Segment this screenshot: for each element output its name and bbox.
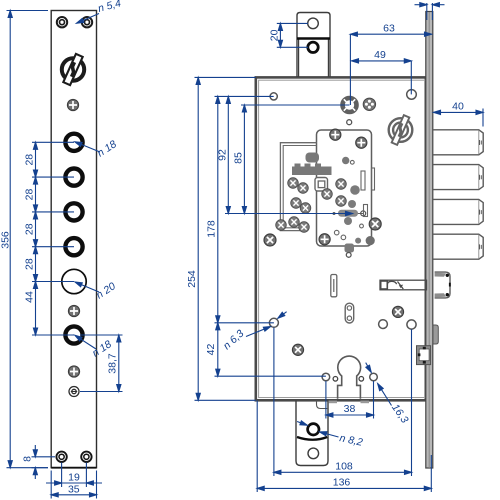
bottom tab divider [297, 437, 327, 440]
dim 19 [46, 463, 102, 488]
bottom tab hole lower [308, 448, 319, 459]
bottom tab hole upper (thick) [308, 424, 319, 435]
top tab hole lower (thick) [308, 42, 318, 52]
top tab [297, 13, 330, 78]
dim 42 [216, 323, 220, 376]
n6.3 hole left [269, 318, 278, 327]
svg-text:63: 63 [383, 23, 395, 35]
square element [315, 178, 328, 192]
leader n8,2 [297, 421, 338, 437]
top tab hole upper [308, 18, 319, 29]
stub below keyhole right [361, 401, 370, 404]
svg-text:178: 178 [206, 220, 218, 238]
phillips right area [392, 306, 403, 317]
svg-text:42: 42 [205, 344, 217, 356]
svg-text:35: 35 [68, 484, 80, 496]
stadium slot [345, 303, 354, 323]
hole with ext line [407, 320, 416, 329]
svg-text:92: 92 [216, 149, 228, 161]
dim 178 [216, 96, 220, 322]
top hole right n5.4 [82, 17, 92, 27]
ext top holes line [215, 95, 274, 97]
ext line mech center [225, 211, 353, 215]
hole n18 #3 [65, 203, 82, 220]
mechanism plate [317, 130, 372, 246]
faceplate strip outline [51, 11, 96, 468]
svg-text:8: 8 [22, 456, 34, 462]
svg-text:136: 136 [333, 477, 351, 489]
phillips screw mid [68, 305, 79, 316]
svg-text:38,7: 38,7 [107, 353, 119, 374]
plain hole [379, 320, 388, 329]
dim 20 (tab holes) [277, 23, 308, 47]
svg-text:40: 40 [452, 101, 464, 113]
key cylinder top hole [343, 98, 357, 112]
top tab divider [297, 37, 330, 39]
bottom screw left [56, 452, 66, 462]
phillips screw lower [68, 366, 79, 377]
faceplate edge strip [426, 12, 433, 469]
faceplate bottom edge thick [51, 467, 96, 469]
teeth bar [292, 153, 332, 176]
plate screws top [330, 129, 341, 140]
leader n20 [74, 280, 99, 292]
svg-text:44: 44 [24, 291, 36, 303]
dim n5,4 leader [76, 14, 99, 26]
bottom tab inner corner [317, 401, 329, 409]
bolt 3 [433, 199, 483, 224]
body hole top-right [407, 90, 417, 100]
svg-text:28: 28 [24, 154, 36, 166]
bolt 2 [433, 165, 483, 190]
svg-text:28: 28 [24, 258, 36, 270]
dim 63 [350, 32, 431, 105]
bottom small parts [334, 230, 339, 235]
hole n18 bottom [65, 326, 82, 343]
dim 35 [51, 471, 96, 499]
dim chain line [33, 142, 37, 335]
hole n20 [62, 269, 86, 293]
aux piece on faceplate [433, 325, 438, 344]
svg-text:85: 85 [232, 152, 244, 164]
bottom screw right [81, 452, 91, 462]
small dot below cylinder [347, 120, 352, 125]
dim 92 [226, 96, 230, 213]
hanging piece [345, 244, 355, 253]
hole n18 #4 [65, 238, 82, 255]
dim 38,7 [80, 335, 123, 392]
leader n18 top [74, 140, 100, 152]
faceplate thickness dim (top) [415, 3, 445, 20]
svg-text:49: 49 [374, 49, 386, 61]
bottom tab [296, 401, 328, 466]
dim 40 (bolt) [434, 109, 484, 127]
key shaft [330, 213, 364, 215]
small screw [69, 387, 79, 397]
phillips screw top [67, 99, 78, 110]
svg-text:28: 28 [24, 223, 36, 235]
left view dim texts [0, 0, 122, 495]
leader 16,3 [366, 363, 392, 406]
dim 8 [32, 445, 56, 479]
dim 254 [195, 77, 256, 400]
ext line flank level [215, 375, 326, 377]
studs row 2 [291, 198, 302, 209]
dim 38 [326, 381, 374, 419]
dim 49 [352, 59, 412, 95]
latch head [435, 272, 451, 298]
keyhole side pin left [333, 377, 338, 382]
svg-text:38: 38 [344, 403, 356, 415]
logo left (brand mark) [62, 54, 84, 85]
dim 85 [242, 105, 246, 214]
dim 136 [257, 401, 431, 493]
vertical slot plate [331, 275, 337, 297]
studs row 3 [289, 217, 300, 228]
disc [342, 157, 349, 164]
mechanism bracket [280, 143, 316, 231]
dim 356 [7, 11, 49, 468]
right view dim texts [186, 23, 464, 489]
flank hole right [370, 373, 378, 381]
bolt 4 [433, 234, 483, 259]
leader n6,3 [246, 312, 287, 337]
phillips bottom-left [292, 344, 303, 355]
ext line n6.3 level [215, 322, 274, 324]
horizontal ext into cylinder [241, 104, 350, 106]
right edge slots [361, 171, 365, 190]
hole n18 #1 [65, 134, 82, 151]
logo right [389, 115, 413, 145]
keyhole side pin right [359, 377, 364, 382]
flank hole left [322, 373, 330, 381]
svg-text:19: 19 [68, 472, 80, 484]
dim chain 28/28/28/28/44 extension lines [32, 142, 74, 335]
svg-text:356: 356 [0, 231, 12, 249]
keyhole cutout [338, 356, 361, 399]
body hole top-left [270, 93, 277, 100]
top hole left n5.4 [57, 17, 67, 27]
svg-text:28: 28 [24, 189, 36, 201]
svg-text:108: 108 [335, 461, 353, 473]
stub below keyhole left [329, 401, 338, 404]
leader n18 bottom [74, 334, 96, 349]
phillips at plate right [369, 218, 381, 230]
studs row 1 [288, 178, 299, 189]
phillips next to cylinder [363, 98, 375, 110]
bolt 1 [433, 130, 483, 155]
hole n18 #2 [65, 169, 82, 186]
body outline [256, 77, 426, 400]
phillips left mid [264, 234, 276, 246]
latch tail bar [380, 280, 427, 290]
svg-text:20: 20 [269, 29, 281, 41]
svg-text:254: 254 [186, 270, 198, 288]
dim 108 [274, 328, 412, 477]
strike bracket [417, 346, 431, 365]
